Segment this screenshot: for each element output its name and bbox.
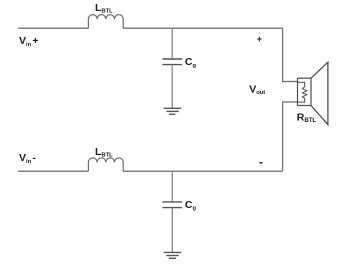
svg-text:RBTL: RBTL (297, 111, 317, 124)
svg-text:-: - (259, 155, 263, 169)
svg-text:Vin+: Vin+ (19, 35, 39, 48)
svg-text:Cg: Cg (185, 56, 197, 69)
svg-text:+: + (257, 34, 262, 44)
svg-text:LBTL: LBTL (95, 2, 113, 14)
svg-text:Cg: Cg (185, 199, 197, 212)
svg-text:Vout: Vout (249, 83, 265, 96)
svg-text:Vin-: Vin- (19, 152, 36, 165)
svg-text:LBTL: LBTL (95, 146, 113, 158)
